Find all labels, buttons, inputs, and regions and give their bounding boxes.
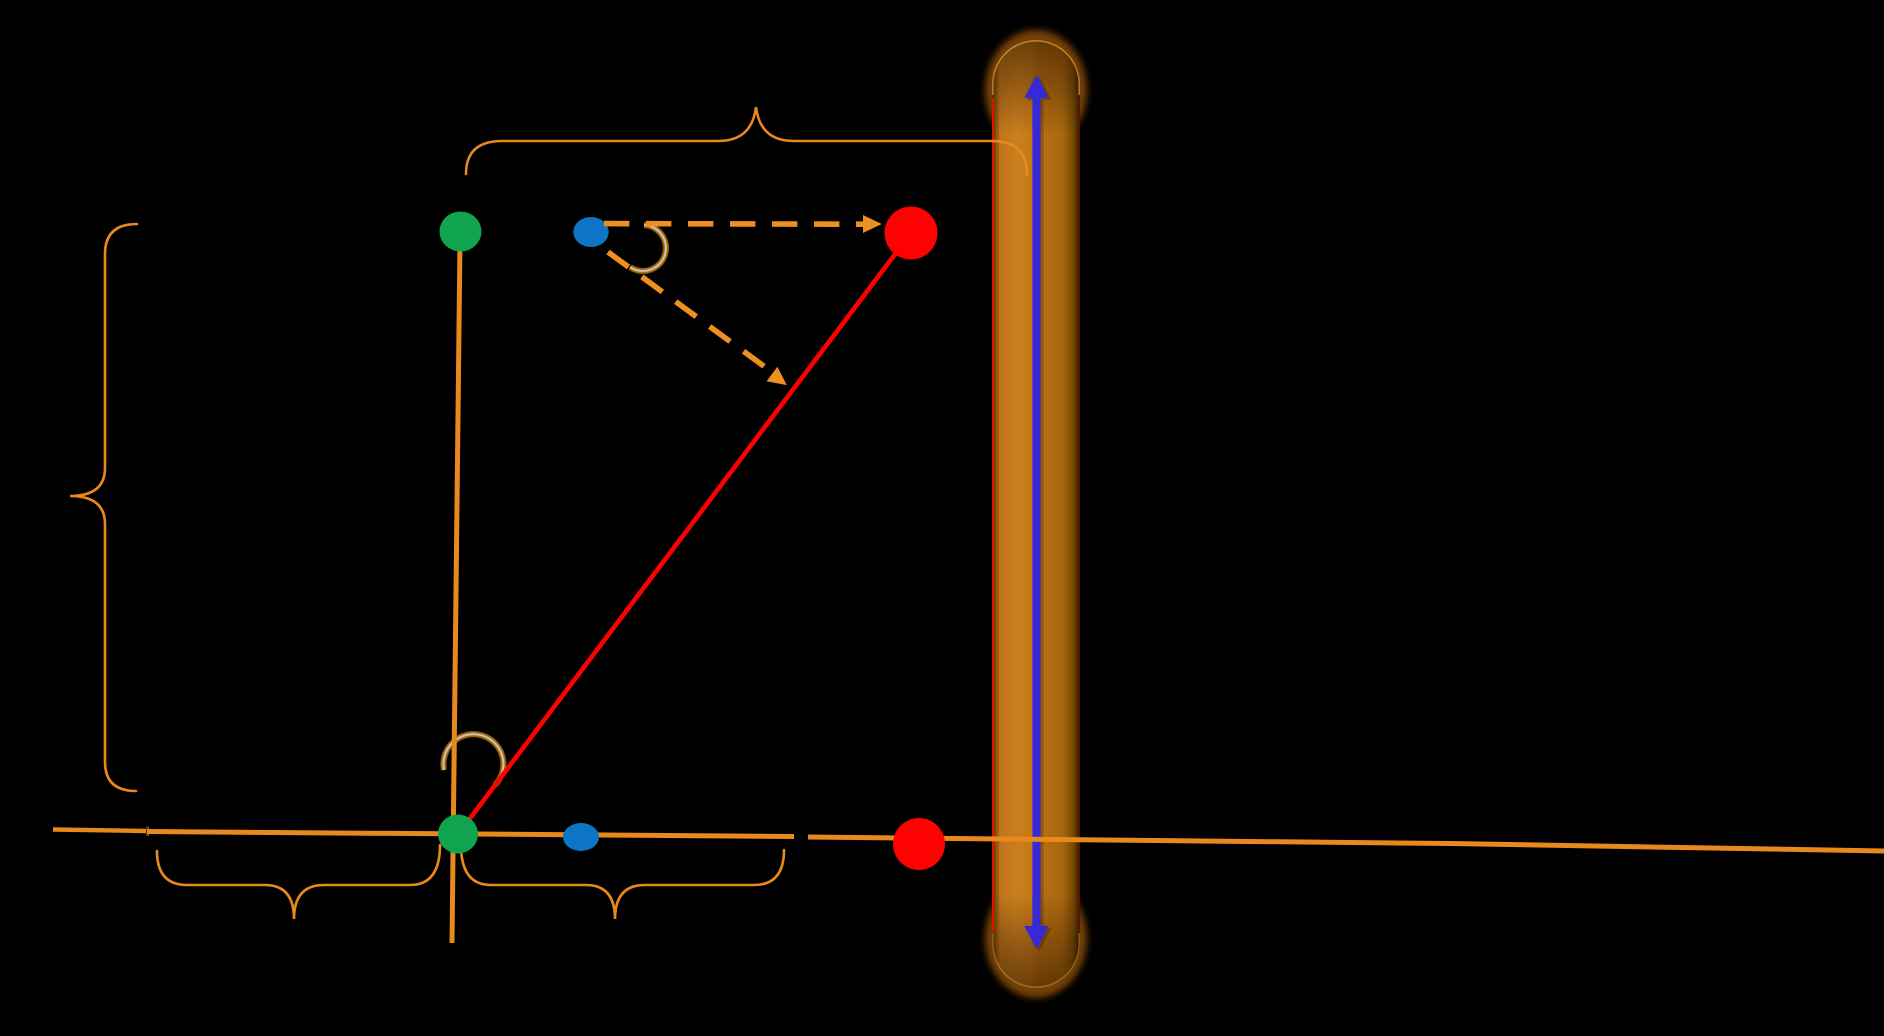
pillar left red sliver bbox=[992, 98, 994, 932]
vertical orange line bbox=[452, 240, 460, 943]
top red dot bbox=[885, 207, 938, 260]
top green dot bbox=[440, 212, 482, 252]
bottom cap rim highlight bbox=[993, 933, 1079, 987]
pillar right dark red sliver bbox=[1077, 98, 1079, 932]
left vertical curly brace bbox=[70, 224, 137, 791]
horizontal dashed arrow bbox=[604, 221, 863, 227]
top cap rim highlight bbox=[993, 41, 1079, 95]
bottom green dot bbox=[438, 815, 478, 854]
pillar left inner dark streaks bbox=[995, 98, 996, 932]
pillar right greenish streak bbox=[1075, 98, 1076, 932]
top blue dot bbox=[573, 217, 608, 247]
top horizontal curly brace bbox=[466, 107, 1027, 175]
blue double-headed arrow inside pillar bbox=[1024, 75, 1048, 950]
ground line right segment bbox=[808, 837, 1884, 851]
ground line tick bbox=[146, 827, 149, 837]
ground line left segment bbox=[53, 830, 146, 832]
red line from lower green point to upper red point bbox=[459, 233, 911, 833]
pillar top cap glow bbox=[985, 30, 1087, 150]
bottom cap shading bbox=[992, 894, 1080, 988]
pillar (orange cylinder) bbox=[992, 40, 1080, 988]
bottom-right under-brace bbox=[461, 845, 784, 919]
bottom angle arc bbox=[443, 734, 503, 785]
blue arrow drop shadow bbox=[1027, 77, 1051, 952]
pillar bottom cap glow bbox=[985, 878, 1087, 998]
bottom blue dot bbox=[563, 823, 599, 851]
top angle arc bbox=[630, 225, 666, 271]
top cap shading bbox=[992, 40, 1080, 134]
diagonal dashed arrow bbox=[608, 252, 765, 367]
ground line main segment bbox=[147, 832, 794, 837]
bottom-left under-brace bbox=[157, 845, 440, 919]
bottom red dot bbox=[893, 818, 945, 870]
